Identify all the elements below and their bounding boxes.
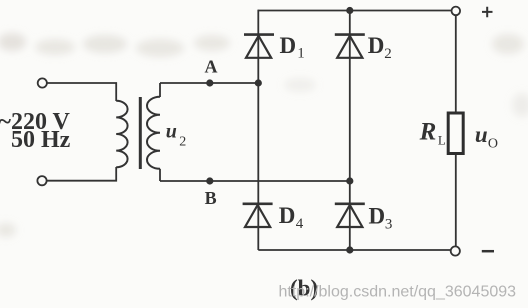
wire left bridge branch (D1/D4 branch) <box>257 10 259 250</box>
label u2 <box>166 121 186 150</box>
transformer core <box>139 97 142 169</box>
label ~220 V 50 Hz <box>0 109 71 153</box>
wire primary bottom lead <box>47 167 116 181</box>
wire primary top lead <box>47 83 116 101</box>
resistor RL <box>448 113 463 154</box>
svg-text:R: R <box>419 119 437 146</box>
svg-text:A: A <box>205 57 218 77</box>
wire right bridge branch (D2/D3 branch) <box>349 11 351 251</box>
svg-text:2: 2 <box>179 134 186 149</box>
label uO <box>475 122 498 151</box>
svg-text:B: B <box>205 188 217 208</box>
svg-text:L: L <box>438 133 446 148</box>
svg-text:O: O <box>488 136 498 151</box>
svg-text:D: D <box>279 203 296 228</box>
diode D2 <box>335 35 365 58</box>
svg-text:u: u <box>166 121 177 143</box>
wire node A horizontal <box>160 82 258 84</box>
label RL <box>419 119 446 148</box>
label D3 <box>369 203 393 232</box>
node B junction dot <box>206 177 213 184</box>
svg-text:2: 2 <box>384 46 392 62</box>
junction A to left branch <box>255 79 262 86</box>
wire secondary bottom lead <box>159 169 161 181</box>
terminal output plus <box>452 7 461 16</box>
svg-text:4: 4 <box>296 216 304 232</box>
svg-text:50 Hz: 50 Hz <box>11 127 71 153</box>
transformer primary winding <box>116 101 127 167</box>
diode D3 <box>335 204 365 227</box>
diode D4 <box>243 204 273 227</box>
svg-text:3: 3 <box>385 217 393 233</box>
background scan smudges <box>0 33 528 237</box>
label D2 <box>368 33 392 62</box>
svg-text:http://blog.csdn.net/qq_360450: http://blog.csdn.net/qq_36045093 <box>279 284 517 301</box>
junction B to right branch <box>346 177 353 184</box>
junction top rail D2 <box>346 7 353 14</box>
terminal input bottom <box>37 176 46 185</box>
svg-text:D: D <box>280 33 297 58</box>
label plus <box>482 7 493 18</box>
label D1 <box>280 33 305 61</box>
label D4 <box>279 203 304 232</box>
terminal input top <box>38 78 47 87</box>
svg-text:D: D <box>369 203 386 228</box>
node A junction dot <box>206 79 213 86</box>
svg-text:u: u <box>475 122 488 147</box>
wire right output rail <box>455 15 457 246</box>
transformer secondary winding <box>147 97 160 169</box>
wire top rail <box>258 10 451 12</box>
terminal output minus <box>451 246 460 255</box>
label minus <box>482 250 494 253</box>
wire node B horizontal <box>160 180 350 182</box>
junction bottom rail D3 <box>346 246 353 253</box>
wire secondary top lead <box>159 83 161 97</box>
svg-text:D: D <box>368 33 385 58</box>
svg-text:1: 1 <box>297 45 305 61</box>
wire bottom rail <box>258 249 451 251</box>
diode D1 <box>244 35 274 58</box>
